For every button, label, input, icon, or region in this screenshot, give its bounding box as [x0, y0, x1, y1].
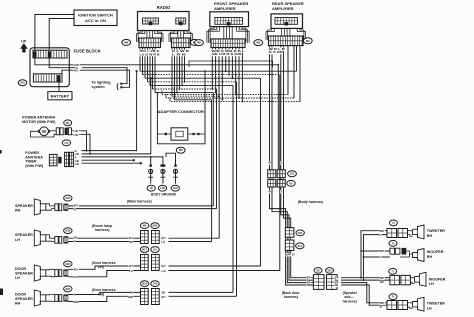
- svg-text:L R B: L R B: [172, 53, 187, 56]
- svg-text:SPEAKER: SPEAKER: [15, 272, 33, 276]
- svg-text:DOOR: DOOR: [15, 292, 26, 296]
- svg-text:LH): LH): [98, 265, 104, 269]
- svg-text:M6: M6: [124, 40, 128, 44]
- svg-text:TWEETER: TWEETER: [427, 302, 445, 306]
- svg-text:LG: LG: [162, 240, 166, 244]
- svg-text:P: P: [74, 240, 76, 244]
- svg-text:B: B: [74, 293, 76, 297]
- svg-text:M16: M16: [65, 230, 70, 233]
- svg-text:2R: 2R: [130, 240, 133, 244]
- svg-text:L/B: L/B: [74, 129, 78, 133]
- svg-text:LH: LH: [427, 306, 432, 310]
- svg-text:OR: OR: [335, 285, 339, 287]
- svg-text:D10: D10: [153, 283, 158, 286]
- svg-text:M15: M15: [65, 197, 70, 200]
- svg-text:S: S: [281, 190, 283, 194]
- svg-text:21B: 21B: [290, 173, 295, 176]
- svg-text:2R: 2R: [74, 235, 77, 239]
- svg-text:UP: UP: [21, 40, 27, 44]
- svg-text:DOOR: DOOR: [15, 267, 26, 271]
- svg-text:21N: 21N: [160, 187, 165, 190]
- svg-text:B/P: B/P: [380, 230, 385, 233]
- svg-text:SPEAKER: SPEAKER: [15, 204, 33, 208]
- svg-text:M21: M21: [65, 288, 70, 291]
- svg-text:30A: 30A: [20, 82, 25, 85]
- svg-text:B/P: B/P: [380, 250, 385, 253]
- svg-text:RH): RH): [98, 292, 104, 296]
- svg-text:L/B: L/B: [75, 152, 79, 156]
- svg-text:harness): harness): [343, 299, 357, 303]
- svg-text:L/B: L/B: [75, 162, 79, 166]
- svg-text:M20: M20: [65, 263, 70, 266]
- svg-text:OR: OR: [307, 285, 311, 287]
- svg-text:RH: RH: [427, 255, 433, 259]
- svg-text:M16: M16: [153, 225, 158, 228]
- svg-text:L/B: L/B: [74, 133, 78, 137]
- svg-text:M4: M4: [66, 122, 70, 125]
- svg-text:M17: M17: [142, 249, 147, 252]
- svg-text:B/Y: B/Y: [74, 203, 79, 207]
- svg-text:LG B W R B: LG B W R B: [140, 53, 160, 56]
- svg-text:B/Y: B/Y: [162, 264, 167, 268]
- svg-text:LG: LG: [129, 269, 133, 273]
- svg-text:(With P/W): (With P/W): [25, 164, 44, 168]
- svg-text:B13: B13: [298, 232, 303, 235]
- svg-text:WOOFER: WOOFER: [429, 277, 446, 281]
- svg-text:17A: 17A: [64, 142, 69, 145]
- svg-text:G S OR: G S OR: [269, 51, 283, 54]
- svg-text:M8: M8: [197, 41, 201, 45]
- svg-text:S: S: [281, 161, 283, 165]
- svg-text:D20: D20: [327, 269, 332, 272]
- svg-text:system: system: [92, 85, 106, 89]
- svg-text:ADAPTER CONNECTOR: ADAPTER CONNECTOR: [158, 109, 204, 114]
- svg-text:B/W: B/W: [74, 300, 80, 304]
- svg-text:M18: M18: [142, 283, 147, 286]
- svg-text:B/P: B/P: [380, 277, 385, 280]
- svg-text:RADIO: RADIO: [157, 5, 171, 10]
- svg-text:POWER ANTENNA: POWER ANTENNA: [22, 116, 55, 120]
- svg-text:B/Y: B/Y: [162, 295, 167, 299]
- svg-text:B: B: [75, 149, 77, 153]
- svg-text:To lighting: To lighting: [92, 80, 112, 84]
- svg-text:M: M: [42, 129, 46, 134]
- svg-text:1N: 1N: [150, 187, 153, 190]
- svg-text:B: B: [131, 290, 133, 294]
- svg-text:B/Y: B/Y: [129, 236, 134, 240]
- svg-text:RH: RH: [15, 302, 21, 306]
- svg-text:20N: 20N: [173, 187, 178, 190]
- svg-text:SPEAKER: SPEAKER: [15, 233, 33, 237]
- svg-text:RH: RH: [15, 208, 21, 212]
- svg-text:B14: B14: [298, 245, 303, 248]
- svg-text:M6: M6: [179, 148, 183, 152]
- svg-text:OR: OR: [380, 281, 384, 284]
- svg-text:B: B: [74, 207, 76, 211]
- svg-text:MOTOR (With P/W): MOTOR (With P/W): [22, 120, 56, 124]
- svg-text:B/W: B/W: [128, 295, 134, 299]
- svg-text:B/P: B/P: [380, 302, 385, 305]
- svg-text:LH: LH: [15, 238, 20, 242]
- svg-text:RH: RH: [427, 234, 433, 238]
- svg-text:L/G: L/G: [162, 269, 166, 273]
- svg-text:B/Y: B/Y: [162, 236, 167, 240]
- svg-text:R/G: R/G: [74, 68, 79, 72]
- svg-text:LG: LG: [74, 275, 78, 279]
- svg-text:harness): harness): [284, 295, 298, 299]
- svg-text:B/Y: B/Y: [129, 264, 134, 268]
- svg-text:B/P G: B/P G: [285, 254, 295, 256]
- svg-text:BATTERY: BATTERY: [51, 93, 70, 98]
- svg-text:AMPLIFIER: AMPLIFIER: [272, 6, 294, 11]
- svg-text:harness): harness): [95, 228, 110, 232]
- svg-text:2B: 2B: [162, 290, 165, 294]
- svg-text:WOOFER: WOOFER: [427, 250, 444, 254]
- svg-text:B: B: [380, 306, 382, 309]
- svg-text:AMPLIFIER: AMPLIFIER: [214, 6, 236, 11]
- svg-text:M2: M2: [256, 41, 260, 45]
- svg-text:OR L/R B S G/R: OR L/R B S G/R: [212, 53, 242, 56]
- svg-text:LH: LH: [429, 282, 434, 286]
- svg-text:BODY GROUND: BODY GROUND: [151, 192, 177, 196]
- svg-text:(Main harness): (Main harness): [127, 200, 152, 204]
- svg-text:LH: LH: [15, 276, 20, 280]
- svg-text:(Body harness): (Body harness): [298, 200, 323, 204]
- svg-text:SPEAKER: SPEAKER: [15, 297, 33, 301]
- svg-text:FUSE BLOCK: FUSE BLOCK: [74, 48, 101, 53]
- svg-text:ACC or ON: ACC or ON: [85, 18, 106, 23]
- svg-text:M3: M3: [306, 39, 310, 43]
- svg-text:IGNITION SWITCH: IGNITION SWITCH: [78, 12, 113, 17]
- svg-text:B/Y: B/Y: [74, 267, 79, 271]
- svg-text:TWEETER: TWEETER: [427, 229, 445, 233]
